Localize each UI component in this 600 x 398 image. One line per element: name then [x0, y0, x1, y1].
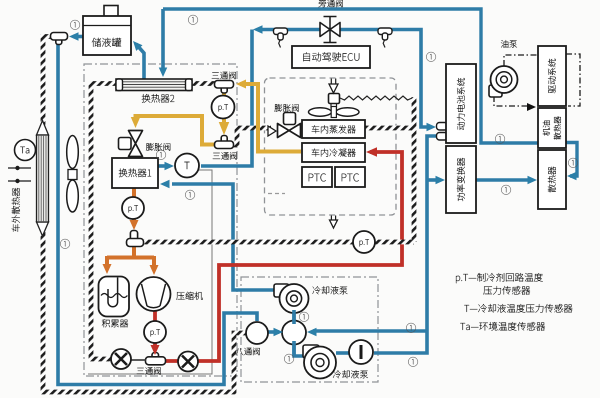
label 动力电池系统 vertical [457, 78, 465, 130]
outdoor fan [67, 136, 79, 169]
sensor text Ta [20, 147, 29, 154]
zigzag wire ECU right stub [383, 39, 385, 48]
label ECU [303, 52, 359, 61]
sensor text pT suction [360, 239, 369, 246]
label PTC 2 [342, 174, 359, 182]
arrow blue into battery connector [427, 123, 437, 132]
tank 储液罐 [104, 6, 118, 17]
wire blue battery return down right side [374, 136, 446, 353]
arrow orange into compressor [150, 265, 159, 275]
wire blue junction to pump2 [294, 343, 306, 356]
arrow blue into T sensor [165, 162, 175, 171]
label 功率变换器 vertical [457, 158, 465, 201]
sensor text pT mid [219, 104, 228, 111]
small dashed stub in HVAC [268, 193, 285, 195]
arrow yellow into left expansion valve [131, 117, 141, 128]
wire blue pump1 to hx1 inlet [172, 184, 276, 290]
battery connector stubs [437, 123, 448, 131]
PTC heater box 1 [302, 167, 332, 187]
oil line pump top to drive system [504, 55, 538, 66]
oil pump 油泵 [489, 85, 502, 97]
wire blue bypass line [258, 30, 421, 122]
ECU tee fitting right [378, 28, 392, 35]
radiator box 散热器 [538, 150, 566, 209]
oil line pump bottom to oil cooler [494, 96, 531, 106]
oil cooler box 机油散热器 [538, 108, 566, 148]
arrow blue eightway to junction [274, 328, 284, 337]
arrow orange into tee [130, 220, 139, 230]
label 三通阀 bottom [213, 152, 237, 160]
tee fitting at tank outlet [56, 35, 62, 45]
zigzag wire ECU left stub [279, 39, 281, 48]
arrow yellow into top three-way [236, 80, 246, 89]
evaporator box 车内蒸发器 [302, 120, 365, 138]
sensor text pT hx1 [129, 205, 138, 212]
label 冷却液泵 bottom [333, 370, 368, 378]
arrow blue left end of bypass [253, 25, 263, 34]
heat exchanger 换热器1 [112, 158, 158, 188]
label PTC 1 [309, 174, 326, 182]
wire yellow bottom three-way to expansion valve [136, 116, 218, 145]
label 三通阀 top [212, 72, 236, 80]
label 冷却液泵 top [313, 286, 348, 294]
label 三通阀 compressor [137, 367, 161, 375]
arrow blue up-left into tank [130, 38, 143, 51]
pipe refrigerant hx2 right to top three-way valve [191, 81, 216, 86]
expansion valve 膨胀阀 left [129, 131, 143, 157]
label 储液罐 [92, 38, 121, 47]
three-way valve bottom fitting [221, 136, 227, 144]
label 驱动系统 vertical [548, 59, 556, 93]
wire blue branch to power converter [427, 178, 439, 182]
zigzag wire blower to refrigerant pipe [340, 96, 412, 100]
ECU tee fitting left [274, 28, 288, 35]
wire blue top header to battery radiator [163, 9, 538, 143]
accumulator 积累器 [99, 277, 130, 317]
label 油泵 [501, 40, 517, 48]
pipe refrigerant evaporator outlet [365, 126, 412, 131]
condenser box 车内冷凝器 [302, 143, 365, 162]
sensor text pT compressor [151, 329, 160, 336]
arrow blue into junction from right [307, 328, 317, 337]
oil line drive system right loop [566, 54, 580, 106]
wire blue radiator right hook [566, 143, 577, 177]
wire blue eightway to junction [267, 330, 279, 334]
wire yellow three-way down through pT [222, 92, 226, 130]
dash-dot enclosure coolant-pump module [241, 277, 378, 382]
label 散热器 vertical [548, 167, 556, 193]
drive system box 驱动系统 [538, 46, 566, 106]
dashed enclosure HVAC unit [265, 78, 397, 215]
pT sensor circle mid [212, 96, 235, 119]
legend line 2 [483, 286, 530, 295]
shutoff valve X left [111, 349, 131, 369]
sensor text T [184, 162, 189, 169]
check valve circle [349, 340, 373, 364]
arrow blue into radiator right [567, 172, 577, 181]
arrow hollow into hvac expansion valve [268, 126, 276, 136]
PTC heater box 2 [335, 167, 365, 187]
pipe refrigerant branch to hx2 left [91, 81, 117, 86]
ambient temp ticks [8, 168, 31, 181]
heat exchanger 换热器2 [116, 79, 192, 91]
label 压缩机 [176, 292, 202, 300]
circled-1 flow markers [70, 20, 80, 30]
blower motor and fan [331, 102, 337, 108]
wire blue tank inlet from hx2 [136, 44, 144, 79]
arrow red into condenser [366, 147, 377, 157]
arrow black oil into oil cooler [527, 103, 536, 111]
eight-way valve circle 八通阀 [246, 322, 268, 344]
arrow blue down into hx2 [159, 68, 168, 78]
wire blue into battery connector [421, 121, 431, 127]
wire red loop to indoor condenser [166, 152, 402, 361]
bypass valve 旁通阀 [324, 17, 337, 43]
arrow blue into hx1 [160, 180, 170, 189]
label 八通阀 [236, 348, 260, 356]
junction cross circle [282, 321, 306, 345]
label 积累器 [102, 319, 128, 327]
pipe refrigerant suction long horizontal [143, 240, 414, 245]
expansion valve 膨胀阀 HVAC [284, 113, 296, 125]
three-way valve top fitting [221, 85, 227, 93]
arrow blue into tank left tee [69, 32, 79, 41]
tee fitting below pT [130, 231, 137, 241]
pipe refrigerant hvac right drop [412, 97, 417, 242]
shutoff valve X right [178, 352, 198, 372]
label 车外散热器 vertical [12, 188, 20, 232]
pT sensor circle on hx1 outlet [122, 197, 144, 219]
wire blue tank to outdoor loop left side [58, 44, 257, 385]
sensor signal line from T [88, 170, 212, 374]
outdoor radiator 车外散热器 [37, 121, 49, 136]
coolant pump 1 冷却液泵 [274, 284, 289, 297]
arrow hollow air outlet [331, 216, 335, 222]
wire red compressor discharge down [153, 311, 157, 350]
wire blue into eight-way junction from right [313, 329, 427, 333]
arrow orange into accumulator [103, 264, 112, 274]
wire orange tee split to accumulator and compressor [107, 246, 154, 269]
label 换热器1 [119, 169, 151, 178]
compressor 压缩机 [137, 277, 171, 311]
pipe refrigerant tank tee to outer left drop [43, 37, 247, 393]
arrow blue into power converter [436, 176, 446, 185]
wire blue down into hx2 [161, 9, 165, 69]
ECU box 自动驾驶ECU [292, 46, 370, 68]
wire blue tank left outlet [73, 35, 83, 39]
label 车内冷凝器 [312, 149, 356, 157]
legend line 4 [460, 322, 545, 331]
pipe refrigerant inner left drop to shutoff valve [91, 84, 112, 360]
link line X valve to tee [131, 359, 146, 361]
label 车内蒸发器 [312, 125, 356, 133]
wire blue hx1 outlet stub [158, 164, 169, 168]
arrow red into three-way fitting [151, 345, 160, 355]
dash-dot enclosure left system [84, 64, 237, 376]
wire blue hx1 outlet via T sensor up to bypass [201, 30, 252, 167]
T sensor circle [175, 154, 199, 178]
wire blue pump2 to check circle [336, 351, 350, 355]
legend line 1 [456, 273, 543, 283]
label 机油 vertical [543, 121, 550, 136]
label 旁通阀 [319, 0, 343, 7]
wire blue overlay through junction [292, 310, 296, 356]
Ta sensor circle [15, 140, 36, 161]
power converter box 功率变换器 [446, 146, 476, 213]
label 换热器2 [142, 94, 175, 103]
arrow blue into radiator left [528, 176, 538, 185]
battery box 动力电池系统 [446, 64, 476, 143]
arrow yellow into bottom three-way [219, 122, 230, 135]
pT sensor circle on suction line [353, 231, 375, 253]
legend line 3 [464, 304, 572, 313]
wire blue power converter to radiator [476, 178, 532, 182]
pipe refrigerant bottom three-way to hvac expansion valve [231, 128, 271, 145]
label 膨胀阀 left [146, 143, 170, 151]
arrow hollow down to blower [331, 79, 335, 85]
wire orange hx1 bottom to tee [132, 188, 136, 225]
three-way valve compressor fitting [152, 353, 159, 361]
label 散热器 col vertical [554, 116, 561, 139]
label 膨胀阀 hvac [275, 104, 299, 112]
wire blue pump1 bottom to junction [292, 310, 296, 322]
wire yellow condenser outlet to top three-way valve [240, 84, 301, 152]
coolant pump 2 冷却液泵 [303, 345, 319, 358]
pT sensor circle on compressor discharge [144, 321, 166, 343]
